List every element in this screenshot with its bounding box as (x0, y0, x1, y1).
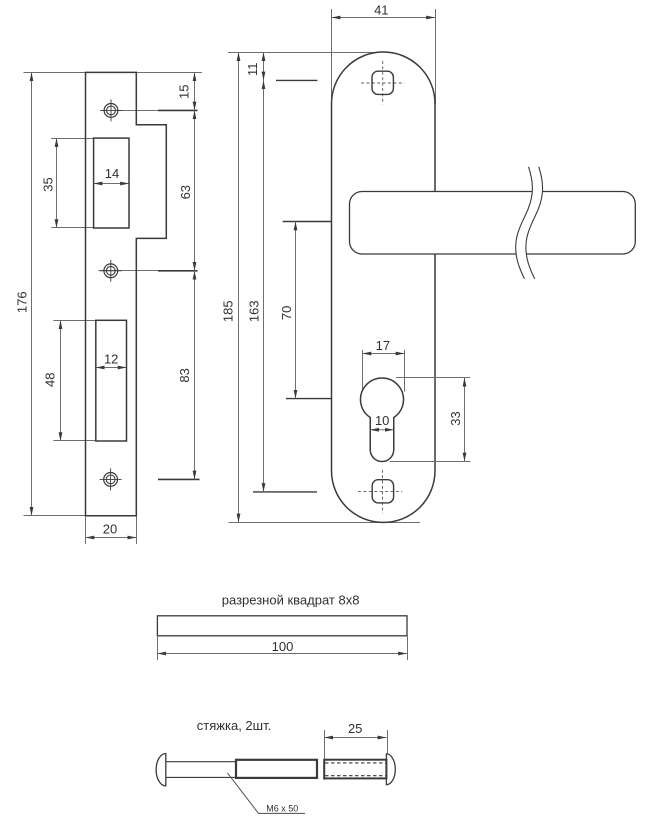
dim 12 line (96, 367, 127, 369)
wire: handle center extension line (283, 221, 342, 223)
wire: cutout1 bottom extension line (51, 227, 93, 229)
break wavy line 1 (516, 167, 533, 279)
dim 17 line (363, 353, 405, 355)
svg-text:12: 12 (104, 352, 118, 367)
dim 63 line (194, 110, 196, 270)
wire: hole2 center extension line thin (99, 270, 159, 272)
top hole rounded square (372, 71, 393, 94)
dim 17 left extension (362, 350, 364, 392)
wire: dim41 right extension (435, 9, 437, 104)
wire: left edge extension for dim 20 (85, 516, 87, 544)
wire: dim33 top extension (396, 377, 470, 379)
svg-text:48: 48 (43, 373, 58, 387)
square bar 8x8 (157, 616, 407, 636)
wire: bottom edge extension line (24, 515, 137, 517)
sleeve thread dashed bottom (325, 775, 386, 777)
svg-text:63: 63 (178, 185, 193, 199)
svg-text:M6 x 50: M6 x 50 (266, 803, 298, 813)
svg-text:83: 83 (177, 368, 192, 382)
wire: right edge extension for dim 20 (136, 516, 138, 544)
wire: dim25 right extension (387, 730, 389, 754)
wire: hole1 center extension line thin (116, 110, 158, 112)
wire: hole1 center extension line thick (158, 109, 198, 111)
hole 1 (100, 99, 122, 121)
svg-text:стяжка, 2шт.: стяжка, 2шт. (197, 718, 271, 733)
svg-text:20: 20 (103, 522, 117, 537)
wire: dim25 left extension (324, 730, 326, 780)
dim 15 line (194, 72, 196, 110)
dim 100 line (157, 653, 407, 655)
dim 176 line (31, 72, 33, 515)
strike plate outline (86, 72, 167, 515)
wire: dim41 left extension (331, 9, 333, 104)
svg-text:17: 17 (376, 338, 390, 353)
svg-text:15: 15 (177, 85, 192, 99)
wire: dim100 right extension (407, 636, 409, 660)
dim 17 right extension (404, 350, 406, 392)
svg-text:185: 185 (220, 300, 235, 322)
sleeve dome cap (386, 754, 395, 785)
dim 83 line (194, 271, 196, 480)
svg-text:41: 41 (374, 3, 388, 18)
dim 25 line (324, 737, 386, 739)
dim 41 line (332, 17, 435, 19)
wire: dim100 left extension (157, 636, 159, 660)
keyhole cylinder cutout (360, 378, 403, 462)
dim 33 line (464, 378, 466, 462)
leader line M6x50 (228, 773, 306, 813)
wire: plate top extension line (228, 52, 386, 54)
top hole crosshair dashed (361, 61, 405, 105)
wire: top hole center extension line (276, 79, 318, 81)
bottom hole rounded square (372, 480, 393, 503)
sleeve thread dashed top (325, 762, 386, 764)
dim 163 line (263, 80, 265, 492)
screw head dome (156, 754, 166, 786)
bottom hole crosshair dashed (358, 470, 402, 514)
lever handle (350, 192, 636, 255)
wire: cutout1 top extension line (51, 138, 93, 140)
dim 20 line (86, 537, 137, 539)
break wavy line 2 (526, 167, 543, 279)
dim 48 line (60, 320, 62, 441)
wire: hole3 center extension line thick (158, 478, 200, 480)
cutout 14x35 (94, 138, 129, 228)
svg-text:176: 176 (15, 291, 30, 313)
svg-text:100: 100 (272, 639, 294, 654)
hole 2 (100, 260, 122, 282)
sleeve nut body (324, 760, 386, 779)
cutout 12x48 (96, 320, 127, 441)
svg-text:35: 35 (40, 177, 55, 191)
svg-text:14: 14 (105, 166, 119, 181)
dim 10 line (370, 429, 394, 431)
wire: dim33 bottom extension (390, 461, 471, 463)
dim 35 line (56, 138, 58, 228)
svg-text:70: 70 (279, 306, 294, 320)
svg-text:разрезной квадрат 8x8: разрезной квадрат 8x8 (222, 593, 360, 608)
wire: hole2 center extension line thick (158, 270, 198, 272)
wire: cutout2 bottom extension line (53, 440, 95, 442)
svg-text:11: 11 (245, 63, 260, 77)
break band white fill (516, 167, 543, 279)
dim 70 line (295, 222, 297, 399)
wire: cylinder center extension line (286, 398, 342, 400)
dim 185 line (238, 52, 240, 522)
screw shaft top line (166, 761, 237, 763)
dim 14 line (94, 183, 129, 185)
svg-text:10: 10 (375, 413, 389, 428)
handle backplate stadium outline (332, 52, 436, 522)
svg-text:25: 25 (348, 721, 362, 736)
dim 11 line (263, 52, 265, 80)
hole 3 (100, 468, 122, 490)
screw thread box (236, 760, 317, 778)
svg-text:33: 33 (448, 411, 463, 425)
svg-text:163: 163 (246, 300, 261, 322)
wire: top edge extension line (24, 72, 203, 74)
wire: bottom hole center extension line (253, 491, 317, 493)
screw shaft bottom line (166, 776, 237, 778)
wire: plate bottom extension line (229, 522, 421, 524)
wire: cutout2 top extension line (53, 320, 95, 322)
